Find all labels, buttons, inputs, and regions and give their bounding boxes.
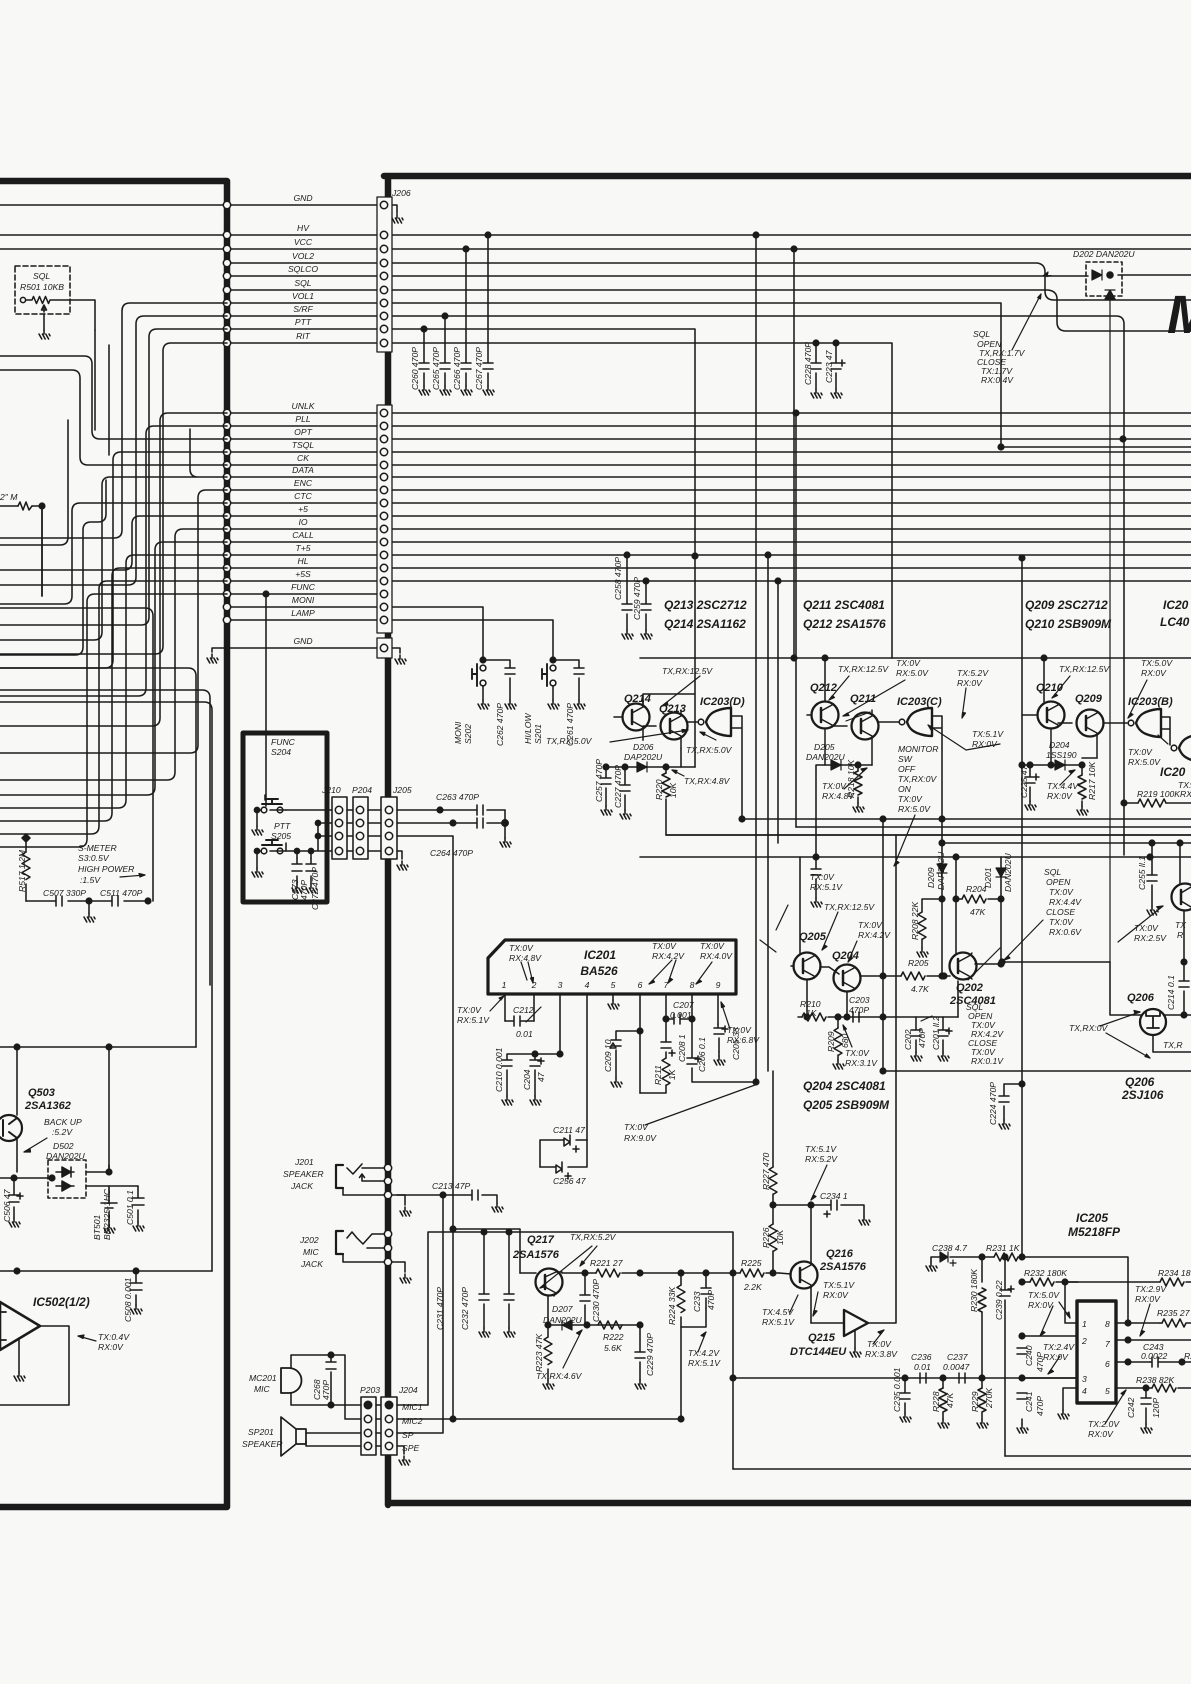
- capacitor C204: [530, 1054, 544, 1096]
- svg-text:C233: C233: [692, 1291, 702, 1312]
- svg-text:R235 27: R235 27: [1157, 1308, 1191, 1318]
- wire RIT: [227, 343, 892, 658]
- capacitor C226: [811, 857, 821, 898]
- svg-text:RX:5.0V: RX:5.0V: [898, 804, 931, 814]
- svg-text:FUNC: FUNC: [271, 737, 296, 747]
- wire: [0, 490, 227, 753]
- svg-text:R221 27: R221 27: [590, 1258, 624, 1268]
- svg-text:0.0022: 0.0022: [1141, 1351, 1168, 1361]
- wire +5S: [227, 580, 1191, 582]
- svg-text:C260 470P: C260 470P: [410, 347, 420, 390]
- wire: [0, 690, 210, 985]
- svg-text:TX:0V: TX:0V: [898, 794, 923, 804]
- resistor R220: [662, 767, 1191, 835]
- wire CK: [227, 464, 1191, 466]
- svg-text:TX,RX:12.5V: TX,RX:12.5V: [662, 666, 713, 676]
- wire CTC: [227, 502, 1191, 504]
- resistor R223: [544, 1325, 552, 1380]
- capacitor C212: [505, 1016, 534, 1026]
- svg-text:Q211 2SC4081: Q211 2SC4081: [803, 598, 885, 612]
- svg-text:DAP202U: DAP202U: [936, 851, 946, 890]
- svg-text:8: 8: [690, 980, 695, 990]
- capacitor C202: [911, 1017, 921, 1052]
- svg-text:RX:0.6V: RX:0.6V: [1049, 927, 1082, 937]
- svg-text:R234 18: R234 18: [1158, 1268, 1191, 1278]
- transistor Q213: [643, 710, 697, 767]
- wire rows to Q217: [397, 1232, 733, 1469]
- svg-text:C241: C241: [1024, 1391, 1034, 1412]
- svg-text:J202: J202: [299, 1235, 319, 1245]
- svg-text:0.0047: 0.0047: [943, 1362, 971, 1372]
- right bottom arrows: [790, 1165, 1150, 1424]
- svg-text:GND: GND: [293, 193, 312, 203]
- capacitor C256: [540, 1140, 587, 1179]
- svg-text:TX,RX:5.0V: TX,RX:5.0V: [546, 736, 593, 746]
- svg-text:R229: R229: [970, 1391, 980, 1412]
- svg-text:IC203(B): IC203(B): [1128, 696, 1173, 708]
- transistor Q202: [944, 857, 1004, 980]
- svg-text:TX,RX:0V: TX,RX:0V: [898, 774, 937, 784]
- resistor R218: [854, 765, 862, 803]
- switch S205 PTT: [254, 840, 286, 868]
- IC201 pin leads: [505, 994, 718, 1140]
- svg-text:TX,RX:12.5V: TX,RX:12.5V: [1059, 664, 1110, 674]
- svg-text:2: 2: [1081, 1336, 1087, 1346]
- svg-text:TX,RX:12.5V: TX,RX:12.5V: [824, 902, 875, 912]
- junction dots top: [791, 246, 797, 252]
- svg-text:470P: 470P: [706, 1290, 716, 1310]
- svg-text:4: 4: [585, 980, 590, 990]
- capacitor C227: [620, 767, 630, 810]
- svg-text:RIT: RIT: [296, 331, 311, 341]
- resistor R228: [939, 1375, 947, 1419]
- wire OPT: [227, 438, 1191, 440]
- svg-text:47K: 47K: [945, 1391, 955, 1408]
- svg-text:RX:5.2V: RX:5.2V: [805, 1154, 838, 1164]
- svg-text:C225 47: C225 47: [1019, 764, 1029, 798]
- capacitor C260: [419, 326, 429, 386]
- svg-text:DATA: DATA: [292, 465, 314, 475]
- node wire: [0, 1046, 196, 1048]
- svg-text:Q204 2SC4081: Q204 2SC4081: [803, 1079, 886, 1093]
- right board outline: [384, 176, 1191, 1505]
- svg-text:R2: R2: [1184, 1351, 1191, 1361]
- svg-text:C209 10: C209 10: [603, 1039, 613, 1072]
- svg-text:8: 8: [1105, 1319, 1110, 1329]
- connector P203: [361, 1397, 381, 1455]
- svg-text:TX:0V: TX:0V: [1128, 747, 1153, 757]
- svg-text:RX:0V: RX:0V: [957, 678, 983, 688]
- svg-text:C264 470P: C264 470P: [430, 848, 473, 858]
- switch S204 FUNC: [254, 795, 286, 826]
- wire: [0, 668, 196, 1047]
- svg-text:D502: D502: [53, 1141, 74, 1151]
- wire: [0, 420, 68, 545]
- svg-text:IC502(1/2): IC502(1/2): [33, 1295, 90, 1309]
- capacitor C236: [920, 1373, 926, 1383]
- svg-text:TX:0V: TX:0V: [1049, 917, 1074, 927]
- svg-text:R205: R205: [908, 958, 929, 968]
- svg-text:J205: J205: [392, 785, 412, 795]
- gate IC203(D): [698, 708, 745, 822]
- wire: [0, 555, 227, 808]
- svg-text:J206: J206: [391, 188, 411, 198]
- resistor R235: [1160, 1319, 1191, 1327]
- svg-text:RX:0V: RX:0V: [1135, 1294, 1161, 1304]
- svg-text:R228: R228: [931, 1391, 941, 1412]
- vertical feeders: [756, 235, 796, 1082]
- LEFTPANEL: [0, 266, 411, 1465]
- svg-text:5: 5: [1105, 1386, 1110, 1396]
- capacitor C223: [831, 340, 845, 389]
- resistor R208: [918, 899, 942, 948]
- wire GND: [0, 205, 397, 213]
- resistor R224: [677, 1270, 706, 1327]
- speaker SP201: [281, 1417, 361, 1456]
- svg-text:Q202: Q202: [956, 982, 983, 994]
- capacitor C232: [504, 1229, 514, 1328]
- capacitor C230: [580, 1273, 590, 1325]
- connector J205: [368, 797, 402, 859]
- svg-text:Q213 2SC2712: Q213 2SC2712: [664, 598, 747, 612]
- svg-text:C240: C240: [1024, 1345, 1034, 1366]
- capacitor C234: [770, 1200, 864, 1217]
- capacitor C211: [540, 1135, 587, 1167]
- transistor Q212: [807, 658, 839, 765]
- capacitor C239: [1000, 1254, 1191, 1456]
- wire PLL: [227, 425, 1191, 427]
- svg-text:RX:5.1V: RX:5.1V: [810, 882, 843, 892]
- svg-text:S205: S205: [271, 831, 291, 841]
- svg-text:RX:4.4V: RX:4.4V: [1049, 897, 1082, 907]
- svg-text:R211: R211: [653, 1065, 663, 1085]
- svg-text:Q210 2SB909M: Q210 2SB909M: [1025, 617, 1112, 631]
- svg-text:TX:0V: TX:0V: [624, 1122, 649, 1132]
- svg-text:47K: 47K: [970, 907, 987, 917]
- svg-text:S204: S204: [271, 747, 291, 757]
- svg-text:SQL: SQL: [33, 271, 50, 281]
- svg-text:R209: R209: [826, 1031, 836, 1052]
- svg-text::1.5V: :1.5V: [80, 875, 101, 885]
- capacitor C265: [440, 313, 450, 386]
- svg-text:270K: 270K: [984, 1387, 994, 1409]
- svg-text:C242: C242: [1126, 1397, 1136, 1418]
- svg-text:R231 1K: R231 1K: [986, 1243, 1021, 1253]
- node wire: [0, 1270, 212, 1272]
- resistor R205: [880, 972, 947, 980]
- wire: [0, 316, 227, 585]
- svg-text:470P: 470P: [321, 1380, 331, 1400]
- resistor R226: [769, 1205, 777, 1276]
- svg-text:HV: HV: [297, 223, 310, 233]
- svg-text:RX:0.4V: RX:0.4V: [981, 375, 1014, 385]
- capacitor C208 / resistor R211: [640, 1019, 675, 1093]
- svg-text:M5218FP: M5218FP: [1068, 1225, 1121, 1239]
- svg-text:R226: R226: [761, 1227, 771, 1248]
- svg-text:RX:0V: RX:0V: [1141, 668, 1167, 678]
- svg-text:R501 10KB: R501 10KB: [20, 282, 64, 292]
- resistor R219: [1121, 799, 1191, 807]
- svg-text:OPT: OPT: [294, 427, 312, 437]
- op-amp IC502: [0, 1302, 69, 1405]
- svg-text:C507 330P: C507 330P: [43, 888, 86, 898]
- wire: [0, 503, 227, 604]
- potentiometer R501 SQL dashed box: [15, 266, 95, 330]
- connector J210: [332, 797, 347, 859]
- wire: [0, 529, 227, 780]
- svg-text:470P: 470P: [917, 1028, 927, 1048]
- svg-text:6: 6: [638, 980, 643, 990]
- capacitor C237: [959, 1373, 965, 1383]
- svg-text:SQL: SQL: [294, 278, 311, 288]
- svg-text:2SJ106: 2SJ106: [1121, 1088, 1164, 1102]
- svg-text:R230 180K: R230 180K: [969, 1268, 979, 1312]
- svg-text:IC203(C): IC203(C): [897, 696, 942, 708]
- svg-text:Q206: Q206: [1125, 1075, 1155, 1089]
- svg-text:R227 470: R227 470: [761, 1153, 771, 1190]
- capacitor C229: [635, 1325, 645, 1380]
- svg-text:TSQL: TSQL: [292, 440, 315, 450]
- resistor R222: [598, 1321, 622, 1329]
- svg-text:JACK: JACK: [300, 1259, 324, 1269]
- svg-text:TX,RX:4.6V: TX,RX:4.6V: [536, 1371, 583, 1381]
- svg-text:2.2K: 2.2K: [743, 1282, 763, 1292]
- gate IC203(C): [899, 708, 942, 819]
- svg-text:PTT: PTT: [274, 821, 291, 831]
- wire: [0, 608, 153, 901]
- svg-text:3: 3: [558, 980, 563, 990]
- resistor (S-meter line): [0, 502, 45, 596]
- svg-text:Q503: Q503: [28, 1087, 55, 1099]
- svg-text:C508 0.001: C508 0.001: [123, 1277, 133, 1322]
- capacitor C206: [687, 1019, 756, 1082]
- svg-text:VOL1: VOL1: [292, 291, 314, 301]
- svg-text:HL: HL: [298, 556, 309, 566]
- svg-text:C207: C207: [673, 1000, 695, 1010]
- opamp IC205: [1077, 1301, 1116, 1403]
- svg-text:C263 470P: C263 470P: [436, 792, 479, 802]
- wire IO: [227, 528, 1191, 530]
- svg-text:S/RF: S/RF: [293, 304, 313, 314]
- resistor R210: [798, 981, 958, 1021]
- svg-text:TX:0V: TX:0V: [457, 1005, 482, 1015]
- capacitor C235: [900, 1375, 910, 1413]
- svg-text:RX:0V: RX:0V: [823, 1290, 849, 1300]
- svg-text:R223 47K: R223 47K: [534, 1333, 544, 1372]
- battery BT501: [101, 1186, 117, 1224]
- capacitor C228: [811, 340, 821, 389]
- svg-text:C204: C204: [522, 1069, 532, 1090]
- transistor Q204: [820, 965, 883, 1018]
- capacitor C506: [9, 1175, 23, 1218]
- svg-text:RX:5.1V: RX:5.1V: [762, 1317, 795, 1327]
- svg-text:OPEN: OPEN: [1046, 877, 1071, 887]
- svg-text:6: 6: [1105, 1359, 1110, 1369]
- svg-text:C206 0.1: C206 0.1: [697, 1037, 707, 1072]
- svg-text:10K: 10K: [775, 1228, 785, 1245]
- svg-text:UNLK: UNLK: [292, 401, 316, 411]
- svg-text:C268: C268: [312, 1379, 322, 1400]
- svg-text:S201: S201: [533, 724, 543, 744]
- svg-text:C255 ll.1: C255 ll.1: [1137, 856, 1147, 890]
- svg-text:MIC: MIC: [303, 1247, 320, 1257]
- svg-text:VOL2: VOL2: [292, 251, 314, 261]
- svg-text:C257 470P: C257 470P: [594, 759, 604, 802]
- svg-text:TX:4.2V: TX:4.2V: [688, 1348, 720, 1358]
- svg-text:R208 22K: R208 22K: [910, 901, 920, 940]
- svg-text:RX:0.1V: RX:0.1V: [971, 1056, 1004, 1066]
- right top texts: [799, 249, 1191, 1125]
- svg-text:C273: C273: [290, 879, 300, 900]
- capacitor C267: [483, 232, 493, 386]
- svg-text:Q209 2SC2712: Q209 2SC2712: [1025, 598, 1108, 612]
- svg-text:C232 470P: C232 470P: [460, 1287, 470, 1330]
- transistor Q201: [1172, 840, 1191, 962]
- svg-text:1K: 1K: [806, 1008, 818, 1018]
- resistor R229 / R230: [978, 1254, 986, 1419]
- right top arrows: [521, 272, 1168, 1058]
- wire UNLK: [227, 412, 1191, 414]
- svg-text:IO: IO: [298, 517, 307, 527]
- svg-text:R219 100K: R219 100K: [1137, 789, 1181, 799]
- svg-text:Q205: Q205: [799, 931, 827, 943]
- capacitor C224: [999, 1081, 1025, 1120]
- capacitor C203: [853, 1012, 859, 1022]
- svg-text:DAP202U: DAP202U: [624, 752, 663, 762]
- svg-text:C272 470P: C272 470P: [310, 867, 320, 910]
- svg-text:C262 470P: C262 470P: [495, 703, 505, 746]
- svg-text:TX:2.0V: TX:2.0V: [1088, 1419, 1120, 1429]
- svg-text:C266 470P: C266 470P: [452, 347, 462, 390]
- svg-text:Q209: Q209: [1075, 693, 1103, 705]
- left board outline: [0, 181, 227, 1507]
- svg-text:TX:0V: TX:0V: [1049, 887, 1074, 897]
- RIGHTBOT: [730, 835, 1191, 1469]
- wire HL: [227, 567, 1191, 569]
- svg-text:C259 470P: C259 470P: [632, 577, 642, 620]
- svg-text:680: 680: [840, 1033, 850, 1048]
- svg-text:C229 470P: C229 470P: [645, 1333, 655, 1376]
- svg-text:R225: R225: [741, 1258, 762, 1268]
- bottom trace: [733, 1468, 1191, 1470]
- svg-text:RX:3.8V: RX:3.8V: [865, 1349, 898, 1359]
- left board edge pins: [223, 201, 230, 623]
- wire ENC: [227, 489, 1191, 491]
- svg-text:47: 47: [536, 1071, 546, 1082]
- svg-text:TX:2.4V: TX:2.4V: [1043, 1342, 1075, 1352]
- svg-text:MONI: MONI: [292, 595, 315, 605]
- svg-text:T+5: T+5: [295, 543, 310, 553]
- wire: [0, 452, 227, 668]
- svg-text:RX:: RX:: [1180, 789, 1191, 799]
- svg-text:1SS190: 1SS190: [1046, 750, 1077, 760]
- svg-text:OFF: OFF: [898, 764, 916, 774]
- capacitor C263: [397, 805, 505, 815]
- svg-text:Q212 2SA1576: Q212 2SA1576: [803, 617, 886, 631]
- RIGHTTOP: [640, 232, 1191, 1257]
- resistor R209: [834, 1017, 842, 1060]
- svg-text:R217 10K: R217 10K: [1087, 761, 1097, 800]
- svg-text:TX:0V: TX:0V: [896, 658, 921, 668]
- svg-text:470P: 470P: [849, 1005, 869, 1015]
- svg-text:C211 47: C211 47: [553, 1125, 586, 1135]
- svg-text:MIC2: MIC2: [402, 1416, 423, 1426]
- diode D502 dashed box pair: [0, 1160, 138, 1198]
- capacitor C233: [701, 1270, 711, 1308]
- wire S/RF: [227, 316, 1124, 855]
- svg-text:TX:0V: TX:0V: [1134, 923, 1159, 933]
- svg-text:C202: C202: [903, 1029, 913, 1050]
- MAZE1: [0, 303, 227, 1271]
- switch S202 MONI: [472, 657, 515, 700]
- svg-text:CLOSE: CLOSE: [1046, 907, 1075, 917]
- arrows: [24, 874, 145, 1342]
- svg-text:Q215: Q215: [808, 1332, 836, 1344]
- capacitor C242: [1141, 1388, 1151, 1424]
- gate IC203(A): [1171, 734, 1191, 761]
- capacitor C272: [306, 858, 316, 884]
- switch box S204/S205: [243, 733, 327, 902]
- svg-text:Q217: Q217: [527, 1234, 555, 1246]
- mosfet Q206: [1110, 962, 1191, 1052]
- wire LAMP: [227, 620, 553, 660]
- svg-text:SPEAKER: SPEAKER: [242, 1439, 283, 1449]
- svg-text:5.6K: 5.6K: [604, 1343, 623, 1353]
- svg-text:3: 3: [1082, 1374, 1087, 1384]
- wire HV: [0, 234, 1191, 236]
- svg-text:R517 1.2M: R517 1.2M: [17, 849, 27, 892]
- wire J205 pin3: [397, 836, 453, 1419]
- svg-text:C228 470P: C228 470P: [803, 342, 813, 385]
- wire: [286, 810, 332, 858]
- transistor Q503: [0, 1047, 109, 1172]
- svg-text:TX,RX:12.5V: TX,RX:12.5V: [838, 664, 889, 674]
- resistor R217: [1078, 765, 1086, 806]
- svg-text:TX:5.0V: TX:5.0V: [1028, 1290, 1060, 1300]
- ground: [392, 214, 403, 223]
- svg-text:C238 4.7: C238 4.7: [932, 1243, 968, 1253]
- svg-text:D205: D205: [814, 742, 835, 752]
- svg-text:R222: R222: [603, 1332, 624, 1342]
- svg-text:RX:5.1V: RX:5.1V: [688, 1358, 721, 1368]
- resistor R221: [582, 1269, 733, 1277]
- capacitor C225: [1025, 762, 1039, 801]
- svg-text:TX:5.1V: TX:5.1V: [972, 729, 1004, 739]
- capacitor C205: [714, 1024, 728, 1056]
- svg-text:DAN202U: DAN202U: [1003, 853, 1013, 892]
- svg-text:TX:5.0V: TX:5.0V: [1141, 658, 1173, 668]
- svg-text:SW: SW: [898, 754, 913, 764]
- wire: [0, 702, 212, 1271]
- svg-text:P203: P203: [360, 1385, 380, 1395]
- svg-text:ENC: ENC: [294, 478, 313, 488]
- wire: [0, 594, 227, 847]
- svg-text:P204: P204: [352, 785, 372, 795]
- svg-text:TX:5.1V: TX:5.1V: [823, 1280, 855, 1290]
- svg-text:TX:0V: TX:0V: [700, 941, 725, 951]
- transistor Q216: [779, 1205, 818, 1323]
- svg-text:DAN202U: DAN202U: [543, 1315, 582, 1325]
- svg-text:Q204: Q204: [832, 950, 859, 962]
- capacitor C201: [938, 1017, 952, 1052]
- svg-text:C258 470P: C258 470P: [613, 557, 623, 600]
- wire: [42, 330, 109, 596]
- svg-text:C212: C212: [513, 1005, 534, 1015]
- net labels: [288, 193, 318, 646]
- wire: [0, 370, 227, 465]
- svg-text:MIC: MIC: [254, 1384, 271, 1394]
- wire: [0, 413, 227, 726]
